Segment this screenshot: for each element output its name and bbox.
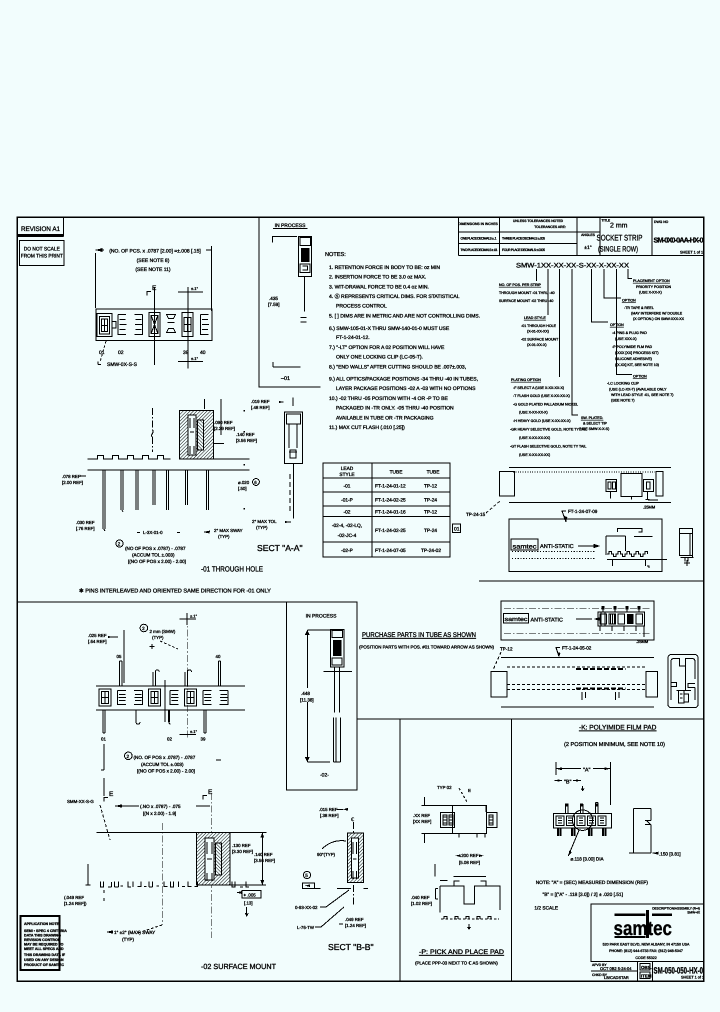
svg-text:-P: PICK AND PLACE PAD: -P: PICK AND PLACE PAD <box>419 949 504 956</box>
dim note circled 2 <box>116 540 186 564</box>
svg-text:THROUGH MOUNT -01 THRU -40: THROUGH MOUNT -01 THRU -40 <box>499 291 555 295</box>
svg-text:(SEE NOTE 8): (SEE NOTE 8) <box>137 258 170 264</box>
svg-text:SOCKET STRIP: SOCKET STRIP <box>597 234 643 243</box>
svg-text:ITEM: ITEM <box>641 974 652 979</box>
svg-text:.040 REF: .040 REF <box>411 895 430 900</box>
do not scale box <box>20 240 64 265</box>
svg-text:TP-12: TP-12 <box>424 510 437 516</box>
svg-text:01: 01 <box>101 737 106 742</box>
body top line with castellations <box>87 456 249 470</box>
svg-text:520 PARK EAST BLVD, NEW ALBANY: 520 PARK EAST BLVD, NEW ALBANY, IN 47150… <box>603 943 690 947</box>
svg-text:LB/CADSTAR: LB/CADSTAR <box>604 975 629 980</box>
svg-text:FT-1-24-02-25: FT-1-24-02-25 <box>375 528 406 534</box>
svg-text:-02 SURFACE MOUNT: -02 SURFACE MOUNT <box>201 962 276 971</box>
svg-text:APPLICATION NOTE: APPLICATION NOTE <box>24 922 60 926</box>
svg-text:ONLY ONE LOCKING CLIP (LC-05-T: ONLY ONE LOCKING CLIP (LC-05-T). <box>336 354 423 360</box>
svg-text:.25MM: .25MM <box>643 505 655 510</box>
tube1 dim 25mm <box>643 500 658 510</box>
svg-text:(USE SMW-X-X-S): (USE SMW-X-X-S) <box>579 427 609 431</box>
svg-text:ONE PLACE DECIMALS ± .1: ONE PLACE DECIMALS ± .1 <box>461 237 497 241</box>
svg-text:OPTION: OPTION <box>610 323 624 327</box>
pins through hole <box>103 470 209 531</box>
svg-text:[7.59]: [7.59] <box>268 302 280 307</box>
svg-text:(X-01-XX-XX): (X-01-XX-XX) <box>527 330 549 334</box>
tree block: placement option <box>633 279 671 295</box>
vertical divider 1 <box>399 719 401 981</box>
svg-text:E: E <box>468 788 471 793</box>
svg-text:(USE X-XX-XX-XX): (USE X-XX-XX-XX) <box>519 436 550 440</box>
polyimide section title <box>564 725 665 749</box>
svg-text:2 mm: 2 mm <box>610 223 628 230</box>
svg-text:SHEET 1 of 1: SHEET 1 of 1 <box>680 251 703 255</box>
top tick dim interleave <box>179 613 197 625</box>
position labels <box>99 350 206 356</box>
svg-text:2. INSERTION FORCE TO BE 3.0 o: 2. INSERTION FORCE TO BE 3.0 oz MAX. <box>329 275 426 281</box>
svg-text:samtec: samtec <box>505 617 528 623</box>
smt body hatched <box>197 833 230 885</box>
svg-text:PRIORITY POSITION: PRIORITY POSITION <box>636 285 671 289</box>
svg-text:PLACEMENT OPTION: PLACEMENT OPTION <box>633 279 670 283</box>
svg-text:UNLESS TOLERANCES NOTED: UNLESS TOLERANCES NOTED <box>513 219 564 223</box>
svg-text:(SEE NOTE 11): (SEE NOTE 11) <box>135 267 171 273</box>
svg-text:[1.24 REF]): [1.24 REF]) <box>64 901 87 906</box>
svg-text:SECT "B-B": SECT "B-B" <box>328 942 374 952</box>
svg-text:"B" = [("A" - .118 [3.0]) / 2]: "B" = [("A" - .118 [3.0]) / 2] ± .020 [.… <box>543 892 623 898</box>
leader 0-93 <box>295 890 349 910</box>
svg-text:[1.24 REF]: [1.24 REF] <box>345 923 366 928</box>
solder tail row <box>86 864 250 901</box>
svg-text:.150 [3.81]: .150 [3.81] <box>659 852 681 857</box>
revision box <box>17 217 63 236</box>
svg-text:-02-4, -02-LQ,: -02-4, -02-LQ, <box>332 523 362 529</box>
svg-text:FT-1-24-02-25: FT-1-24-02-25 <box>375 498 406 504</box>
svg-text:(MAY INTERFERE W/ DOUBLE: (MAY INTERFERE W/ DOUBLE <box>631 312 683 316</box>
svg-text:.XX REF: .XX REF <box>413 813 430 818</box>
svg-text:.030 REF: .030 REF <box>76 520 95 525</box>
svg-text:CODE 55322: CODE 55322 <box>635 956 656 960</box>
svg-text:2: 2 <box>142 626 145 631</box>
svg-text:SM-0X0-0AA-HX-0: SM-0X0-0AA-HX-0 <box>654 236 704 245</box>
title block <box>459 217 704 256</box>
svg-text:±.1°: ±.1° <box>191 356 199 361</box>
svg-text:[.76 REF]: [.76 REF] <box>76 526 95 531</box>
svg-text:(USE X-XX-XX-XX): (USE X-XX-XX-XX) <box>519 453 550 457</box>
svg-text:-01 THROUGH HOLE: -01 THROUGH HOLE <box>201 565 263 574</box>
circled 5 <box>303 871 310 878</box>
svg-text:-02: -02 <box>344 510 351 516</box>
svg-text:.140 REF: .140 REF <box>254 852 273 857</box>
anti-static tube top <box>509 519 662 572</box>
left dim .078 <box>62 474 86 485</box>
svg-text:.448: .448 <box>301 691 310 696</box>
svg-text:ANGLES: ANGLES <box>581 233 595 237</box>
svg-text:DO NOT SCALE: DO NOT SCALE <box>24 247 61 253</box>
svg-text:FOUR PLACE DECIMALS ±.0005: FOUR PLACE DECIMALS ±.0005 <box>502 248 545 252</box>
svg-text:.140 REF: .140 REF <box>236 432 255 437</box>
sway note <box>106 925 162 942</box>
svg-text:FT-1-24-05-02: FT-1-24-05-02 <box>562 646 592 651</box>
dia .020 dim <box>238 479 259 491</box>
svg-text:9.) ALL OPTICS/PACKAGE POSITIO: 9.) ALL OPTICS/PACKAGE POSITIONS -34 THR… <box>329 377 478 383</box>
svg-text:[.64 REF]: [.64 REF] <box>88 639 107 644</box>
svg-text:3. WIT-DRAWAL FORCE TO BE 0.4: 3. WIT-DRAWAL FORCE TO BE 0.4 oz MIN. <box>329 284 429 290</box>
section body hatched <box>180 411 214 459</box>
svg-text:TP-12: TP-12 <box>424 484 437 490</box>
separator line mid left <box>17 601 357 603</box>
svg-text:SILICONE ADHESIVE): SILICONE ADHESIVE) <box>615 357 652 361</box>
pick and place pad profile <box>435 864 500 919</box>
feature control box <box>302 883 320 889</box>
svg-text:MAY BE REQUIRED TO: MAY BE REQUIRED TO <box>24 943 64 947</box>
tree block: option LC <box>607 375 674 403</box>
sect B-B label <box>328 942 374 952</box>
interleaved view dim .025 <box>88 630 124 683</box>
svg-text:±1°: ±1° <box>584 245 592 251</box>
svg-text:-GR HEAVY SELECTIVE GOLD, NOT: -GR HEAVY SELECTIVE GOLD, NOTE TY TAIL <box>510 428 587 432</box>
-01 through hole label <box>201 565 263 574</box>
tube end view small top <box>680 528 694 566</box>
baseline sect B-B <box>337 887 368 889</box>
svg-text:(POSITION PARTS WITH POS. #01: (POSITION PARTS WITH POS. #01 TOWARD ARR… <box>359 645 495 650</box>
svg-text:"A": "A" <box>583 768 591 774</box>
svg-text:SM-050-050-HX-0: SM-050-050-HX-0 <box>654 966 704 976</box>
svg-text:(SEE NOTE 7): (SEE NOTE 7) <box>611 399 635 403</box>
label FT-1-24-07-09 <box>562 509 598 522</box>
svg-text:(TYP): (TYP) <box>256 525 268 530</box>
svg-text:02: 02 <box>118 350 124 356</box>
svg-text:5: 5 <box>305 873 308 878</box>
svg-text:REVISION CONTROL: REVISION CONTROL <box>24 938 61 942</box>
svg-text:✱ PINS INTERLEAVED AND ORI: ✱ PINS INTERLEAVED AND ORIENTED SAME DIR… <box>79 588 271 595</box>
svg-text:PURCHASE PARTS IN TUBE AS: PURCHASE PARTS IN TUBE AS SHOWN <box>362 632 476 639</box>
svg-text:(PLACE PPP-03 NEXT TO ℂ AS SHO: (PLACE PPP-03 NEXT TO ℂ AS SHOWN) <box>415 961 498 966</box>
lead style table <box>323 463 450 557</box>
svg-text:[2.29 REF]: [2.29 REF] <box>214 426 235 431</box>
svg-text:[5.08 REF]: [5.08 REF] <box>459 860 480 865</box>
dim .150 <box>652 852 680 857</box>
svg-text:THREE PLACE DECIMALS ±.005: THREE PLACE DECIMALS ±.005 <box>502 237 545 241</box>
svg-text:0-93-XX-02: 0-93-XX-02 <box>295 905 318 910</box>
tree drop lines <box>537 269 632 415</box>
svg-text:-LC LOCKING CLIP: -LC LOCKING CLIP <box>607 382 640 386</box>
dim B <box>555 776 581 786</box>
svg-text:AVAILABLE IN TUBE OR -TR PACKA: AVAILABLE IN TUBE OR -TR PACKAGING <box>336 415 434 421</box>
svg-text:FT-1-24-01-12: FT-1-24-01-12 <box>375 484 406 490</box>
dim .015 ref <box>319 807 348 818</box>
svg-text:(NO. OF POS x .0787) - .0787: (NO. OF POS x .0787) - .0787 <box>134 755 196 760</box>
svg-text:(X OPTION.) ON SMW-XXX-XX: (X OPTION.) ON SMW-XXX-XX <box>633 317 685 321</box>
samtec logo box <box>591 904 704 961</box>
svg-text:samtec: samtec <box>513 543 537 550</box>
svg-text:NOTES:: NOTES: <box>325 252 346 258</box>
svg-text:-H HEAVY GOLD (USE X-XX-XX-X): -H HEAVY GOLD (USE X-XX-XX-X) <box>513 419 571 423</box>
svg-text:OCT 0B2 5-24-04: OCT 0B2 5-24-04 <box>600 966 632 971</box>
svg-text:SEMI • SPEC 4 CRITERIA: SEMI • SPEC 4 CRITERIA <box>24 929 67 933</box>
dim .049 left <box>64 895 87 906</box>
svg-text:[(NO OF POS x 2.00) - 2.00]: [(NO OF POS x 2.00) - 2.00] <box>128 559 186 564</box>
svg-text:.025 REF: .025 REF <box>88 633 107 638</box>
svg-text:[3.56 REF]: [3.56 REF] <box>254 858 275 863</box>
svg-text:E: E <box>208 789 213 796</box>
vertical divider 2 <box>511 719 513 981</box>
svg-text:FT-1-24-01-16: FT-1-24-01-16 <box>375 510 406 516</box>
samtec anti-static text 1 <box>511 539 574 550</box>
interleave pins down <box>103 710 206 733</box>
svg-text:(USE XXX-X): (USE XXX-X) <box>615 337 637 341</box>
svg-text:"B": "B" <box>564 780 572 786</box>
leader from 01 pin <box>101 744 104 796</box>
svg-text:L-76-TW: L-76-TW <box>297 925 315 930</box>
in process 1 bottom tick <box>273 362 301 382</box>
svg-text:.200 REF: .200 REF <box>460 853 479 858</box>
svg-text:1° ±2° (MAX) SWAY: 1° ±2° (MAX) SWAY <box>114 930 155 935</box>
svg-text:LAYER PACKAGE POSITIONS -02 A: LAYER PACKAGE POSITIONS -02 A -03 WITH N… <box>336 386 476 392</box>
revision marker 01 <box>453 524 461 533</box>
svg-text:02: 02 <box>167 737 172 742</box>
svg-text:PHONE: (812) 944-6733 FAX: (8: PHONE: (812) 944-6733 FAX: (812) 948-504… <box>609 949 683 953</box>
svg-text:THIS DRAWING DATA IF: THIS DRAWING DATA IF <box>24 953 66 957</box>
svg-text:PACKAGED IN -TR ONLY. -05 THRU: PACKAGED IN -TR ONLY. -05 THRU -40 POSIT… <box>336 406 454 412</box>
svg-text:OPTION: OPTION <box>633 375 647 379</box>
svg-text:±.1°: ±.1° <box>191 286 199 291</box>
dim .090 ref <box>204 399 235 435</box>
middle column top view <box>437 785 471 802</box>
svg-text:90°(TYP): 90°(TYP) <box>317 852 336 857</box>
svg-text:.019 REF: .019 REF <box>251 399 270 404</box>
circled 2 note interleave <box>140 624 178 649</box>
dim pad top view <box>413 813 431 824</box>
svg-text:.078 REF: .078 REF <box>62 474 81 479</box>
svg-text:SMM-XX-S-G: SMM-XX-S-G <box>67 799 94 804</box>
svg-text:40: 40 <box>216 654 221 659</box>
title block texts <box>458 219 703 255</box>
tube end view right <box>668 655 698 708</box>
svg-text:SMW-0X-S-S: SMW-0X-S-S <box>107 362 138 368</box>
svg-text:⌀.118 [3.00] DIA: ⌀.118 [3.00] DIA <box>571 857 605 862</box>
svg-text:-G GOLD PLATED PALLADIUM NICK: -G GOLD PLATED PALLADIUM NICKEL <box>513 403 578 407</box>
dots column <box>244 410 246 510</box>
label TP-12 <box>493 647 513 671</box>
svg-text:FT-1-24-07-05: FT-1-24-07-05 <box>375 548 406 554</box>
circled 2 note bottom interleave <box>125 752 222 774</box>
svg-text:FT-1-24-07-09: FT-1-24-07-09 <box>568 509 598 514</box>
svg-text:.049 REF: .049 REF <box>345 917 364 922</box>
svg-text:(NO OF POS x .0787) - .0787: (NO OF POS x .0787) - .0787 <box>125 546 186 551</box>
sect A-A label <box>257 543 303 553</box>
svg-text:LEAD: LEAD <box>341 466 354 472</box>
tube 2 bottom <box>491 657 657 707</box>
svg-text:⌖ .005: ⌖ .005 <box>244 893 257 898</box>
svg-text:-K: POLYIMIDE FILM PAD: -K: POLYIMIDE FILM PAD <box>579 725 657 732</box>
svg-text:[.50]: [.50] <box>238 486 247 491</box>
label TP-24-15 <box>466 501 500 517</box>
svg-text:[.48 REF]: [.48 REF] <box>251 405 270 410</box>
centerline mark <box>351 817 354 905</box>
svg-text:2° MAX SWAY: 2° MAX SWAY <box>214 528 243 533</box>
svg-text:[XX REF]: [XX REF] <box>413 819 431 824</box>
in process box 1 <box>259 217 320 387</box>
svg-text:-T FLASH GOLD (USE X-XX-XX-X): -T FLASH GOLD (USE X-XX-XX-X) <box>513 394 570 398</box>
polyimide connector view <box>553 802 611 836</box>
interleaved body <box>96 680 245 722</box>
svg-text:OPTION: OPTION <box>622 299 636 303</box>
svg-text:SHEET 1 of 1: SHEET 1 of 1 <box>681 976 704 980</box>
svg-text:SURFACE MOUNT -02 THRU -40: SURFACE MOUNT -02 THRU -40 <box>499 299 553 303</box>
svg-text:(.XXX [XX] PROCESS KIT): (.XXX [XX] PROCESS KIT) <box>615 351 659 355</box>
connector top view body <box>96 309 212 340</box>
svg-text:-P POLYIMIDE FLM PAD: -P POLYIMIDE FLM PAD <box>612 345 653 349</box>
contacts top view <box>97 313 209 337</box>
tree block: option 4/P <box>610 323 659 367</box>
svg-text:.435: .435 <box>269 296 278 301</box>
svg-text:-02-P: -02-P <box>341 548 353 554</box>
notes block <box>325 252 480 431</box>
tick <box>581 786 584 791</box>
separator line upper right <box>479 580 704 582</box>
2 max sway <box>203 528 243 539</box>
bottom title strip <box>591 961 704 981</box>
centerline interleave <box>186 617 188 739</box>
90 deg note <box>317 841 346 857</box>
svg-text:WITH LEAD STYLE -01, SEE NOTE: WITH LEAD STYLE -01, SEE NOTE 7) <box>611 393 674 397</box>
pin labels down <box>101 737 206 742</box>
svg-text:USED ON ANY DESIGN: USED ON ANY DESIGN <box>24 958 64 962</box>
svg-text:2: 2 <box>118 542 121 547</box>
svg-text:7.) "-LT" OPTION FOR A 02 POSI: 7.) "-LT" OPTION FOR A 02 POSITION WILL … <box>329 345 445 351</box>
svg-text:SECT "A-A": SECT "A-A" <box>257 543 303 553</box>
svg-text:11.) MAX CUT FLASH (.010 [.25: 11.) MAX CUT FLASH (.010 [.25]) <box>329 425 405 431</box>
svg-text:& SELECT TIP: & SELECT TIP <box>583 422 607 426</box>
svg-text:.130 REF: .130 REF <box>232 843 251 848</box>
svg-text:(.NO x .0787) - .075: (.NO x .0787) - .075 <box>140 804 181 809</box>
svg-text:-01 THROUGH HOLE: -01 THROUGH HOLE <box>521 324 557 328</box>
svg-text:39: 39 <box>183 350 189 356</box>
dims right of smt body <box>230 833 275 885</box>
pins interleaved note <box>79 588 271 595</box>
svg-text:TUBE: TUBE <box>390 470 403 476</box>
svg-text:6.) SMW-105-01-X THRU SMW-140-: 6.) SMW-105-01-X THRU SMW-140-01-0 MUST … <box>329 326 450 332</box>
svg-text:[3.56 REF]: [3.56 REF] <box>236 438 257 443</box>
svg-text:FROM THIS PRINT: FROM THIS PRINT <box>21 254 64 260</box>
dim .140 ref <box>214 432 257 444</box>
tube 1 top <box>499 467 671 502</box>
pick and place title <box>415 949 504 966</box>
SMM label surface mount <box>67 799 110 840</box>
E section letters bottom <box>104 789 213 802</box>
in process 2 dim <box>298 630 343 779</box>
svg-text:ℂ: ℂ <box>351 817 354 822</box>
svg-text:FT-1-24-01-12.: FT-1-24-01-12. <box>336 335 370 341</box>
svg-text:1/2 SCALE: 1/2 SCALE <box>534 906 558 912</box>
anti-static strip 2 <box>501 601 654 640</box>
svg-text:TP-24-02: TP-24-02 <box>421 548 441 554</box>
dim .005 right <box>236 891 261 917</box>
svg-text:([X.XX] KIT, SEE NOTE 10): ([X.XX] KIT, SEE NOTE 10) <box>615 363 659 367</box>
svg-text:[3.30 REF]: [3.30 REF] <box>232 849 253 854</box>
section arrow E top <box>147 285 157 296</box>
svg-text:(TYP): (TYP) <box>122 937 134 942</box>
svg-text:L-3X-01-0: L-3X-01-0 <box>143 530 163 535</box>
svg-text:–01: –01 <box>281 376 290 382</box>
svg-text:[(N x 2.00) - 1.9]: [(N x 2.00) - 1.9] <box>143 811 176 816</box>
dim bottom sect B-B <box>339 917 366 928</box>
connector in strip 2 <box>598 606 649 644</box>
svg-text:[1.02 REF]: [1.02 REF] <box>411 901 432 906</box>
svg-text:01: 01 <box>454 527 460 533</box>
svg-text:[(NO OF POS x 2.00) - 2.00]: [(NO OF POS x 2.00) - 2.00] <box>137 769 195 774</box>
svg-text:ANTI-STATIC: ANTI-STATIC <box>531 617 564 623</box>
svg-text:(TYP): (TYP) <box>218 534 230 539</box>
centerline left with break <box>152 408 154 452</box>
svg-text:TITLE: TITLE <box>602 219 611 223</box>
connector in anti-static tube <box>578 528 667 568</box>
svg-text:2° MAX TOL: 2° MAX TOL <box>252 519 277 524</box>
svg-text:SMW-4X: SMW-4X <box>687 911 701 915</box>
svg-text:40: 40 <box>200 350 206 356</box>
svg-text:(USE (LC-XX-T) (AVAILABLE ONLY: (USE (LC-XX-T) (AVAILABLE ONLY <box>609 388 667 392</box>
-02 surface mount label <box>201 962 276 971</box>
svg-text:TP-24: TP-24 <box>424 498 437 504</box>
centerlines surface mount <box>162 793 211 938</box>
svg-text:MEET ALL SPECS AND: MEET ALL SPECS AND <box>24 947 64 951</box>
svg-text:(ACCUM TOL ±.003): (ACCUM TOL ±.003) <box>141 762 184 767</box>
svg-text:-F SELECT A (USE X-XX-XX-X): -F SELECT A (USE X-XX-XX-X) <box>513 386 564 390</box>
svg-text:-TR TAPE & REEL: -TR TAPE & REEL <box>624 306 654 310</box>
svg-text:[11.38]: [11.38] <box>300 698 314 703</box>
label L-3X-01-0 <box>137 530 180 535</box>
svg-text:-01-P: -01-P <box>341 498 353 504</box>
svg-text:[2.00 REF]: [2.00 REF] <box>62 480 83 485</box>
separator right mid <box>357 718 704 720</box>
polyimide circle <box>568 810 604 862</box>
svg-text:(2 POSITION MINIMUM, SEE NOTE: (2 POSITION MINIMUM, SEE NOTE 10) <box>564 741 665 748</box>
svg-text:(ACCUM TOL ±.003): (ACCUM TOL ±.003) <box>132 553 175 558</box>
svg-text:SMW-1XX-XX-XX-S-XX-X-XX-XX: SMW-1XX-XX-XX-S-XX-X-XX-XX <box>516 263 630 270</box>
polyimide side view <box>629 809 651 854</box>
tick below <box>468 924 471 929</box>
in process 1 connector side view <box>272 236 312 311</box>
dim no x .0787 <box>115 804 210 816</box>
label FT-1-24-05-02 <box>556 646 592 658</box>
2 deg max tol right <box>252 519 291 530</box>
svg-text:10.) -02 THRU -05 POSITION WIT: 10.) -02 THRU -05 POSITION WITH -4 OR -P… <box>329 396 448 402</box>
svg-text:2: 2 <box>127 754 130 759</box>
svg-text:NO. OF POS. PER STRIP: NO. OF POS. PER STRIP <box>499 283 542 287</box>
svg-text:TWO PLACE DECIMALS ± .01: TWO PLACE DECIMALS ± .01 <box>461 248 498 252</box>
in process 1 dim text <box>268 296 280 307</box>
svg-text:(SINGLE ROW): (SINGLE ROW) <box>598 245 638 254</box>
side view right of sect A-A <box>285 398 303 519</box>
svg-text:8.) "END WALLS" AFTER CUTTING: 8.) "END WALLS" AFTER CUTTING SHOULD BE … <box>329 364 466 370</box>
pin labels up <box>117 654 221 659</box>
svg-text:±.1°: ±.1° <box>190 729 198 734</box>
application box <box>21 916 68 970</box>
dim .040 ref <box>411 895 432 906</box>
bottom tick dim interleave <box>179 729 197 735</box>
dim .030 ref <box>76 520 95 531</box>
svg-text:(TYP): (TYP) <box>152 635 164 640</box>
tree block: lead style <box>521 316 559 347</box>
svg-text:05: 05 <box>117 654 122 659</box>
svg-text:-02-: -02- <box>320 773 329 779</box>
note lines <box>534 880 648 912</box>
interleave pins up <box>120 661 221 686</box>
tree block: option TR <box>622 299 685 322</box>
leader L-76 <box>297 907 344 930</box>
svg-text:(NO. OF PCS. x .0787 [2.00] =±: (NO. OF PCS. x .0787 [2.00] =±.008 [.15] <box>109 249 201 255</box>
main pcb line <box>97 832 267 834</box>
svg-text:TYP 02: TYP 02 <box>437 785 452 790</box>
